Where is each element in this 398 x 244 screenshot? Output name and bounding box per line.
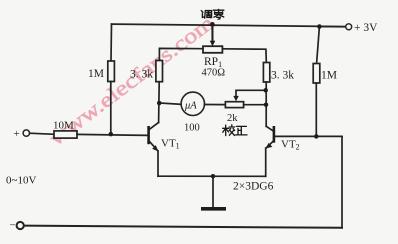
- potentiometer RP1 body: [203, 46, 222, 53]
- svg-text:100: 100: [184, 123, 200, 134]
- arrowhead 2k wiper: [233, 96, 239, 101]
- junction 2k lead / VT2 collector line: [264, 102, 269, 107]
- resistor R4 3.3k right box: [263, 63, 269, 83]
- resistor R3 3.3k left box: [156, 61, 163, 82]
- transistor Q2 VT2 collector diagonal: [266, 126, 273, 131]
- terminal input+ circle: [23, 130, 29, 136]
- label 调零 (CJK drawn): [201, 9, 224, 19]
- junction input node: [109, 132, 114, 137]
- label 校正 (CJK drawn): [223, 125, 247, 136]
- wire +3V branch to 1M right: [317, 27, 320, 64]
- wire meter right lead: [205, 104, 226, 106]
- transistor Q1 VT1 collector diagonal: [150, 123, 159, 130]
- svg-text:2×3DG6: 2×3DG6: [233, 181, 274, 193]
- ground bar: [201, 207, 226, 211]
- junction VT2 base / 1M right: [314, 134, 319, 139]
- wire emitter bus: [158, 175, 266, 177]
- junction top rail / +3V branch: [317, 24, 322, 29]
- svg-text:3. 3k: 3. 3k: [130, 69, 153, 81]
- svg-text:+ 3V: + 3V: [354, 22, 378, 34]
- transistor Q2 VT2 base bar: [273, 126, 276, 143]
- wire bottom rail: [24, 226, 342, 228]
- wire top rail: [112, 24, 346, 27]
- svg-text:1M: 1M: [321, 70, 337, 82]
- svg-text:3. 3k: 3. 3k: [271, 70, 294, 82]
- svg-text:−: −: [10, 220, 16, 232]
- junction emitter bus / ground: [211, 174, 216, 179]
- junction VT1 collector / meter: [157, 101, 162, 106]
- wire ground stem: [212, 176, 214, 207]
- wire VT2 emitter down: [265, 148, 267, 176]
- wire VT1 emitter down: [157, 151, 159, 176]
- wire input lead to 10M: [30, 133, 54, 134]
- wire right vertical: [341, 136, 343, 227]
- wire inner rail left segment: [159, 48, 203, 60]
- resistor R2 1M left box: [108, 61, 115, 82]
- wire 1M left bottom to input node: [110, 82, 112, 135]
- wire VT2 base line to right vertical: [275, 135, 342, 137]
- arrowhead VT2 emitter: [266, 143, 273, 149]
- transistor Q2 VT2 emitter diagonal: [266, 141, 274, 148]
- wire 3.3k left bottom to VT1 collector: [158, 82, 161, 123]
- svg-text:1M: 1M: [88, 68, 104, 80]
- terminal +3V circle: [346, 24, 352, 30]
- junction wiper / VT2 collector line: [263, 88, 268, 93]
- terminal input- circle: [17, 222, 24, 229]
- watermark www.elecfans.com: [45, 10, 219, 150]
- svg-text:2k: 2k: [227, 113, 238, 124]
- svg-text:+: +: [14, 128, 20, 140]
- resistor R5 1M right box: [313, 64, 320, 84]
- wire 3.3k right bottom down VT2 collector line: [265, 82, 267, 126]
- resistor R1 10M box: [54, 131, 77, 138]
- wire 2k right lead: [244, 104, 267, 106]
- wire 10M to VT1 base: [77, 134, 148, 135]
- svg-text:10M: 10M: [53, 120, 74, 132]
- arrowhead VT1 emitter: [152, 145, 158, 151]
- wire inner rail right segment: [222, 49, 266, 63]
- svg-text:μA: μA: [184, 101, 197, 112]
- wire 1M right bottom to VT2 base node: [315, 83, 317, 136]
- wire zero-adjust wiper from top rail: [211, 24, 213, 42]
- junction top rail / zero wiper: [210, 22, 215, 27]
- meter M1 microammeter circle: [181, 92, 204, 115]
- arrowhead RP1 wiper: [210, 41, 216, 47]
- wire left vertical from top rail to 1M R2: [110, 24, 113, 61]
- svg-text:470Ω: 470Ω: [202, 68, 226, 79]
- potentiometer RP2 2k body: [225, 102, 243, 108]
- svg-text:0~10V: 0~10V: [6, 175, 36, 187]
- wire meter left lead: [159, 103, 181, 104]
- transistor Q1 VT1 base bar: [147, 126, 150, 144]
- wire +3V terminal lead: [319, 26, 345, 28]
- wire 2k wiper to VT2 collector line: [236, 90, 266, 98]
- transistor Q1 VT1 emitter diagonal: [150, 142, 158, 151]
